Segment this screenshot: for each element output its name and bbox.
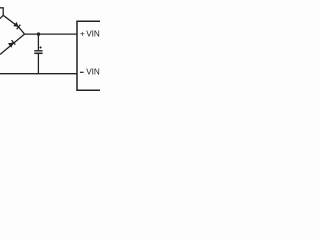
wire negative DC rail to -VIN: [0, 73, 77, 75]
wire bridge lower-right arm: [0, 34, 25, 54]
svg-text:VIN: VIN: [86, 29, 100, 38]
wire bridge upper-left arm stub: [0, 15, 3, 18]
capacitor polarity + mark: [40, 46, 42, 48]
wire bridge upper-right arm: [3, 15, 24, 34]
pin label -VIN: [80, 71, 84, 73]
svg-text:VIN: VIN: [86, 67, 100, 76]
svg-text:+: +: [80, 28, 85, 38]
IC U1 box outline (left portion visible): [77, 21, 100, 90]
wire capacitor bottom lead: [37, 54, 39, 74]
wire capacitor top lead: [37, 34, 39, 50]
wire AC input lead (top-left): [0, 8, 3, 16]
pin label +VIN: [80, 28, 100, 38]
node junction dot (rail / capacitor): [37, 32, 40, 35]
wire positive DC rail to +VIN: [25, 33, 77, 35]
capacitor C1 negative plate: [34, 52, 42, 54]
diode D2 (lower bridge arm, cathode toward + node): [8, 40, 15, 48]
capacitor C1 positive plate: [34, 50, 42, 52]
diode D1 (upper bridge arm, cathode toward + node): [13, 22, 20, 29]
